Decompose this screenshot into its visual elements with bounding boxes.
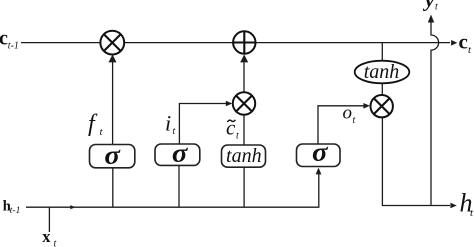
svg-text:o: o [343,103,353,124]
svg-text:tanh: tanh [364,61,400,83]
svg-text:c: c [226,116,236,140]
svg-text:x: x [42,227,51,246]
svg-text:t: t [353,115,356,126]
svg-text:t-1: t-1 [10,206,21,216]
svg-text:σ: σ [312,138,329,167]
svg-text:i: i [165,110,171,135]
svg-text:σ: σ [104,140,121,169]
svg-text:c: c [459,30,468,54]
svg-text:t-1: t-1 [8,40,19,51]
svg-text:tanh: tanh [226,145,262,167]
svg-text:t: t [236,131,239,142]
svg-text:c: c [0,28,8,50]
svg-text:t: t [54,239,57,247]
svg-text:t: t [173,126,176,137]
svg-text:t: t [435,1,438,12]
svg-text:σ: σ [172,138,189,167]
